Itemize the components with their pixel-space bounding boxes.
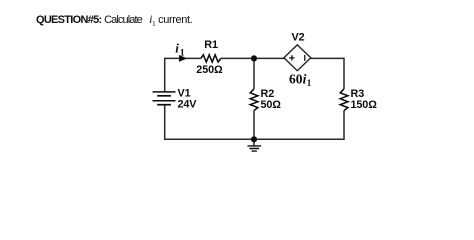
wire top rail right segment (diamond to corner) bbox=[311, 57, 344, 59]
svg-text:V2: V2 bbox=[292, 32, 305, 44]
label 24V bbox=[178, 99, 198, 111]
label 50ohm bbox=[261, 99, 282, 111]
label i1 (current) bbox=[175, 41, 185, 59]
wire top rail left segment with R1 gap bbox=[164, 57, 284, 59]
title text bbox=[36, 12, 192, 28]
wire bottom rail bbox=[164, 138, 344, 140]
V2 plus sign bbox=[289, 55, 294, 60]
junction node A (top of R2) bbox=[251, 55, 257, 61]
ground bbox=[247, 139, 261, 151]
junction node B (bottom of R2 / ground) bbox=[251, 136, 257, 142]
V2 minus bar bbox=[304, 55, 306, 61]
wire middle vertical (R2 branch) bbox=[253, 58, 255, 139]
label 250ohm bbox=[196, 64, 223, 76]
label 150ohm bbox=[351, 99, 378, 111]
label R3 bbox=[351, 88, 365, 100]
svg-text:150Ω: 150Ω bbox=[351, 99, 378, 111]
svg-text:i: i bbox=[175, 41, 179, 56]
svg-text:1: 1 bbox=[307, 78, 312, 88]
battery V1 plate long top bbox=[153, 91, 176, 93]
svg-text:60: 60 bbox=[289, 72, 303, 87]
label V1 bbox=[178, 88, 191, 100]
resistor R2 bbox=[250, 89, 258, 111]
label 60i1 (controlled value) bbox=[289, 72, 312, 88]
dependent source V2 (diamond) bbox=[284, 45, 311, 71]
current arrow i1 bbox=[179, 56, 186, 62]
svg-text:24V: 24V bbox=[178, 99, 198, 111]
battery V1 plate short bottom bbox=[157, 104, 171, 106]
svg-text:250Ω: 250Ω bbox=[196, 64, 223, 76]
svg-text:R1: R1 bbox=[204, 39, 218, 51]
resistor R3 bbox=[340, 89, 348, 111]
resistor R1 bbox=[201, 55, 221, 62]
label R1 bbox=[204, 39, 218, 51]
label V2 bbox=[292, 32, 305, 44]
svg-text:1: 1 bbox=[180, 48, 185, 58]
battery V1 plate short bbox=[157, 95, 171, 97]
label R2 bbox=[261, 88, 275, 100]
battery V1 plate long bottom bbox=[153, 100, 176, 102]
wire right vertical (R3 branch) bbox=[343, 58, 345, 141]
svg-text:50Ω: 50Ω bbox=[261, 99, 282, 111]
wire left vertical (V1 branch) bbox=[164, 58, 166, 139]
